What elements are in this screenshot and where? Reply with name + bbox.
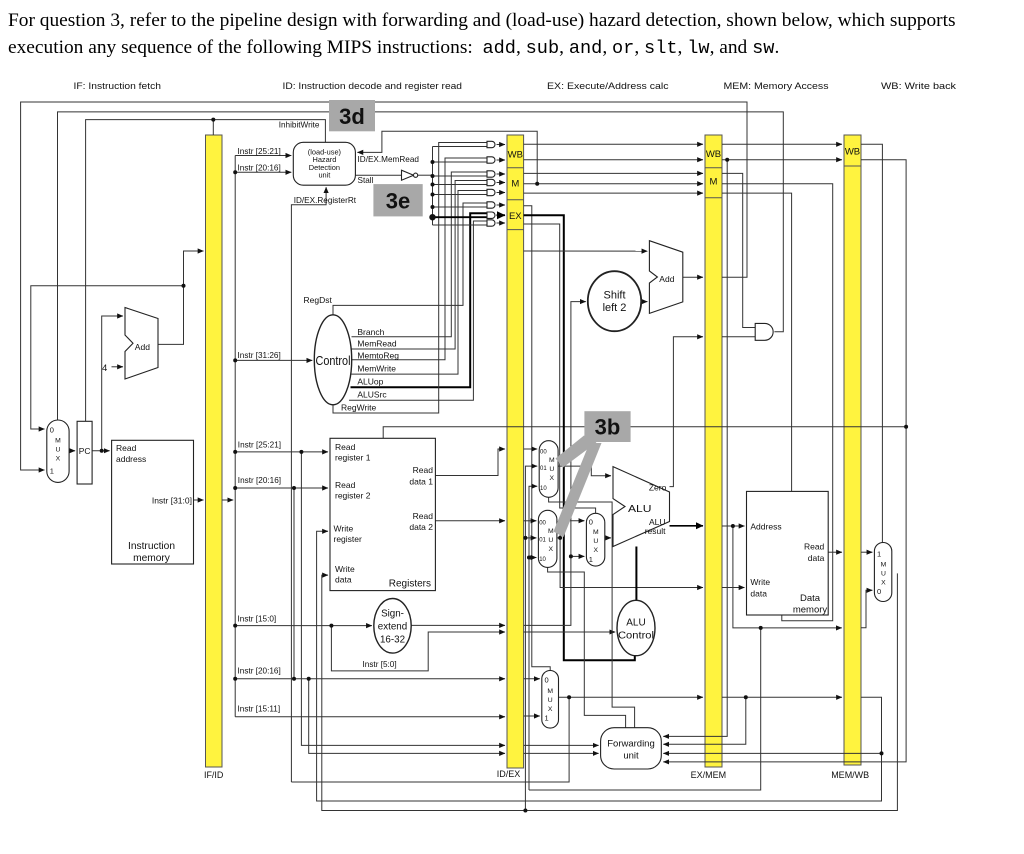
wire Instr[20:16] to ID/EX <box>235 678 505 680</box>
svg-text:result: result <box>645 526 666 536</box>
svg-text:PC: PC <box>79 446 91 456</box>
wire stall stub g1 <box>433 146 488 148</box>
svg-text:Instr [31:26]: Instr [31:26] <box>238 351 281 360</box>
wire forward mux A output to ALU top input <box>558 466 611 476</box>
svg-text:MEM/WB: MEM/WB <box>831 770 869 780</box>
svg-text:unit: unit <box>318 171 330 180</box>
MEM/WB WB section divider <box>844 165 861 167</box>
svg-text:U: U <box>549 466 554 473</box>
callout box 3b <box>584 411 630 442</box>
svg-text:MEM: Memory Access: MEM: Memory Access <box>724 81 829 91</box>
svg-text:MemtoReg: MemtoReg <box>357 351 399 361</box>
wire stall stub g7 thick <box>433 216 488 218</box>
wire WB control ID/EX to EX/MEM line 2 <box>524 159 703 161</box>
pipeline register MEM/WB <box>844 135 861 765</box>
wire Rt down to ID/EX <box>309 679 505 754</box>
wire MEM/WB RegWrite down to forwarding unit <box>663 160 906 762</box>
wire EX/MEM Rd down to forwarding unit <box>663 697 746 744</box>
svg-text:Branch: Branch <box>357 327 384 337</box>
wire ALUop control thick <box>351 213 488 387</box>
wire Instr[25:21] to hazard unit <box>235 155 291 157</box>
wire PC to Add top input <box>102 316 123 451</box>
instruction memory <box>112 440 194 564</box>
wire MemRead control <box>351 181 487 350</box>
wire WB value forward vertical <box>525 466 537 810</box>
wire read data 1 to forward mux A input 00 <box>524 448 538 450</box>
wire Stall from inverter to distribution <box>355 174 401 176</box>
svg-text:10: 10 <box>539 557 546 563</box>
wire B value down to EX/MEM write data <box>560 538 703 588</box>
wire Rd to destination mux input 1 <box>524 715 540 717</box>
wire read data 2 to ID/EX <box>435 520 505 522</box>
svg-text:Write: Write <box>335 564 355 574</box>
wire ALUOp thick to ALU control <box>524 215 635 660</box>
wire PC output to instruction memory read address <box>92 450 110 452</box>
svg-text:register 1: register 1 <box>335 453 371 463</box>
control gate g6 <box>487 202 495 208</box>
svg-text:left 2: left 2 <box>603 302 627 314</box>
pipeline register EX/MEM <box>705 135 722 767</box>
svg-text:ID/EX.MemRead: ID/EX.MemRead <box>358 155 420 164</box>
svg-text:0: 0 <box>589 518 593 527</box>
svg-text:Read: Read <box>413 465 434 475</box>
wire funct field to ALU control <box>524 631 616 633</box>
sign extend oval <box>374 599 411 654</box>
svg-text:Write: Write <box>750 577 770 587</box>
svg-text:MemRead: MemRead <box>357 339 396 349</box>
wire M control Branch ID/EX to EX/MEM <box>524 172 703 174</box>
wire Instr[15:11] to ID/EX <box>235 716 505 718</box>
pipeline register ID/EX <box>507 135 524 768</box>
svg-text:Sign-: Sign- <box>381 608 404 619</box>
wire forward mux B output node <box>557 537 560 539</box>
wire Instr[31:26] to Control <box>235 359 312 361</box>
wire B value to ALU source mux input 0 <box>560 521 584 538</box>
svg-text:EX: EX <box>509 211 522 222</box>
wire RegWrite from MEM/WB to Registers <box>383 427 906 439</box>
wire IF/ID instruction output to distribution node <box>222 499 233 501</box>
callout box 3e <box>373 184 422 216</box>
svg-text:10: 10 <box>540 486 547 492</box>
ID/EX EX section divider <box>507 229 524 231</box>
wire branch-target feedback EX/MEM to PC mux input 1 <box>21 102 747 470</box>
EX/MEM M section divider <box>705 197 722 199</box>
data memory <box>747 491 829 615</box>
svg-text:M: M <box>55 438 61 445</box>
svg-text:Write: Write <box>334 524 354 534</box>
svg-text:Add: Add <box>659 274 674 284</box>
svg-text:Instr [25:21]: Instr [25:21] <box>238 147 281 156</box>
svg-text:InhibitWrite: InhibitWrite <box>279 121 320 130</box>
wire ALU Zero flag to EX/MEM <box>670 337 704 487</box>
wire Zero flag EX/MEM to AND gate <box>722 336 755 338</box>
wire Rd EX/MEM to MEM/WB <box>722 696 842 698</box>
svg-text:X: X <box>594 547 599 554</box>
svg-text:Instr [5:0]: Instr [5:0] <box>363 660 397 669</box>
wire PCSrc from AND gate to PC mux select <box>58 112 784 420</box>
wire ID/EX.RegisterRt up to hazard unit <box>291 187 326 782</box>
hazard detection unit <box>293 142 355 185</box>
wire stall stub g6 <box>433 206 488 208</box>
ALU control oval <box>617 600 655 655</box>
svg-text:M: M <box>881 562 887 569</box>
svg-text:Instr [20:16]: Instr [20:16] <box>238 164 281 173</box>
svg-text:01: 01 <box>539 538 546 544</box>
svg-text:Address: Address <box>750 521 781 531</box>
wire ALU result down to MEM/WB <box>733 526 842 628</box>
wire read data 1 to ID/EX <box>435 449 505 476</box>
svg-text:U: U <box>55 447 60 454</box>
svg-text:1: 1 <box>877 550 881 559</box>
svg-text:M: M <box>710 177 718 188</box>
wire RegDst select down to destination mux <box>524 206 551 671</box>
wire Instr[15:0] to sign extend <box>235 625 372 627</box>
svg-text:ALU: ALU <box>628 503 652 515</box>
wire forward select A from forwarding unit <box>549 497 635 727</box>
control gate g3 <box>487 171 495 177</box>
svg-text:1: 1 <box>545 714 549 723</box>
svg-text:3d: 3d <box>339 104 365 129</box>
svg-text:X: X <box>548 706 553 713</box>
wire Branch control <box>352 172 488 337</box>
wire MEM/WB ALU result to WB mux input 0 <box>861 590 872 627</box>
svg-text:ID/EX: ID/EX <box>497 769 521 779</box>
wire immediate stub into ALU source mux input 1 <box>571 555 585 557</box>
svg-text:WB: WB <box>706 149 721 160</box>
svg-text:data: data <box>808 553 825 563</box>
wire RegDst control from Control oval <box>333 203 487 315</box>
wire Add output to IF/ID <box>158 251 204 344</box>
wire MemtoReg control <box>352 158 488 360</box>
svg-text:16-32: 16-32 <box>380 634 405 645</box>
svg-text:ID: Instruction decode and reg: ID: Instruction decode and register read <box>283 81 463 91</box>
svg-text:Zero: Zero <box>649 482 667 492</box>
wire Rt field down to ID/EX input line <box>293 488 295 679</box>
wire WB control EX/MEM to MEM/WB line 1 <box>722 143 842 145</box>
wire WB value stub to mux B input 01 <box>525 537 536 539</box>
wire ALU result forward down to EX muxes <box>529 628 761 790</box>
svg-text:register 2: register 2 <box>335 491 371 501</box>
ID/EX M section divider <box>507 199 524 201</box>
wire immediate to shift left 2 and ALU source mux <box>524 302 586 626</box>
wire InhibitWrite from hazard unit to PC and IF/ID <box>86 120 326 422</box>
svg-text:M: M <box>548 528 554 535</box>
svg-text:memory: memory <box>793 605 828 616</box>
svg-text:WB: WB <box>845 147 860 158</box>
wire instruction memory output to IF/ID <box>194 499 204 501</box>
svg-text:X: X <box>549 546 554 553</box>
svg-text:RegWrite: RegWrite <box>341 403 377 413</box>
svg-text:Read: Read <box>335 442 356 452</box>
wire MEM/WB Rd to forwarding unit <box>663 697 881 753</box>
mux ALU source <box>586 513 604 566</box>
svg-text:extend: extend <box>378 621 407 632</box>
wire shift left 2 output to branch Add <box>641 301 647 303</box>
wire Stall distribution vertical <box>432 147 434 226</box>
wire read data MEM/WB to WB mux input 1 <box>861 551 872 553</box>
wire RegWrite control <box>333 143 487 414</box>
adder branch target <box>649 241 682 314</box>
svg-text:ALUSrc: ALUSrc <box>357 389 387 399</box>
svg-text:Instr [20:16]: Instr [20:16] <box>238 476 281 485</box>
wire destination register number to EX/MEM <box>559 696 704 698</box>
wire stall stub g3 <box>433 175 488 177</box>
svg-text:MemWrite: MemWrite <box>357 363 396 373</box>
wire ALUSrc select down to ALU source mux <box>524 224 596 513</box>
wire read data to MEM/WB <box>828 551 842 553</box>
svg-text:0: 0 <box>877 587 881 596</box>
svg-text:Control: Control <box>618 631 654 642</box>
pipeline register IF/ID <box>206 135 223 767</box>
control gate g1 <box>487 141 495 147</box>
svg-text:data: data <box>335 574 352 584</box>
svg-text:Read: Read <box>804 542 825 552</box>
wire ALU result to EX/MEM <box>670 525 704 527</box>
svg-text:X: X <box>881 580 886 587</box>
wire MemWrite to data memory <box>722 184 833 621</box>
wire stall stub g8 <box>433 224 488 226</box>
wire M control MemRead ID/EX to EX/MEM <box>524 192 703 194</box>
wire EX/MEM value forward vertical <box>529 486 537 790</box>
svg-text:data: data <box>750 589 767 599</box>
svg-text:U: U <box>593 538 598 545</box>
svg-text:4: 4 <box>102 363 107 374</box>
wire ALU control to ALU thick <box>635 547 637 602</box>
wire Rt to destination mux input 0 <box>524 678 540 680</box>
svg-text:Read: Read <box>335 480 356 490</box>
svg-text:Instr [25:21]: Instr [25:21] <box>238 440 281 449</box>
svg-text:Instr [15:0]: Instr [15:0] <box>238 614 277 623</box>
svg-text:01: 01 <box>540 466 547 472</box>
callout box 3d <box>329 100 375 131</box>
wire MemtoReg select down to WB mux <box>861 144 882 542</box>
svg-text:0: 0 <box>545 676 549 685</box>
svg-text:3b: 3b <box>595 415 621 440</box>
svg-text:U: U <box>548 697 553 704</box>
callout arrow 3b to mux A <box>556 436 597 468</box>
wire WB control EX/MEM to MEM/WB line 2 <box>722 159 842 161</box>
callout arrow 3b to mux B <box>554 443 602 537</box>
svg-text:M: M <box>549 457 555 464</box>
wire ALU source mux output to ALU <box>605 537 611 539</box>
ID/EX WB section divider <box>507 167 524 169</box>
register PC <box>77 421 92 484</box>
wire write data EX/MEM to data memory <box>722 587 745 589</box>
wire gate outputs into ID/EX <box>497 144 506 146</box>
svg-text:3e: 3e <box>386 189 410 214</box>
control gate g7 <box>487 212 495 218</box>
control gate g4 <box>487 179 495 185</box>
wire sign extend output to ID/EX <box>411 624 505 626</box>
wire MemRead to data memory <box>722 193 792 491</box>
svg-text:RegDst: RegDst <box>304 295 333 305</box>
wire stall stub g4 <box>433 184 488 186</box>
wire forward select B from forwarding unit <box>548 567 626 727</box>
control gate g8 <box>487 220 495 226</box>
svg-text:M: M <box>511 179 519 190</box>
adder PC+4 <box>125 308 158 380</box>
forwarding unit <box>601 728 662 769</box>
AND gate branch <box>755 323 773 340</box>
wire stall stub g2 <box>433 161 488 163</box>
svg-text:U: U <box>548 537 553 544</box>
wire constant 4 into Add <box>112 366 124 368</box>
svg-text:Instr [20:16]: Instr [20:16] <box>238 666 281 675</box>
wire destination number down to hazard return line <box>291 697 569 782</box>
wire PC+4 through ID/EX to branch Add <box>524 250 648 252</box>
svg-text:00: 00 <box>539 521 546 527</box>
wire instruction distribution vertical <box>234 156 236 717</box>
svg-text:data 2: data 2 <box>409 522 433 532</box>
control gate g2 <box>487 157 495 163</box>
svg-text:Forwarding: Forwarding <box>607 738 655 749</box>
svg-text:Shift: Shift <box>603 290 625 302</box>
wire EX/MEM RegWrite down to forwarding unit <box>663 160 727 737</box>
svg-text:Instr [15:11]: Instr [15:11] <box>238 704 281 713</box>
wire stall stub g5 <box>433 194 488 196</box>
svg-text:1: 1 <box>589 555 593 564</box>
control unit oval <box>314 315 351 405</box>
svg-text:IF/ID: IF/ID <box>204 770 224 780</box>
svg-text:address: address <box>116 454 146 464</box>
wire Instr[20:16] to hazard unit <box>235 171 291 173</box>
control gate g5 <box>487 189 495 195</box>
svg-text:X: X <box>550 475 555 482</box>
svg-text:M: M <box>547 688 553 695</box>
mux PC source <box>47 420 69 482</box>
wire Instr[20:16] to read register 2 <box>235 487 328 489</box>
wire ID/EX.MemRead loopback to hazard unit <box>357 131 537 183</box>
svg-text:Control: Control <box>316 354 351 368</box>
EX/MEM WB section divider <box>705 167 722 169</box>
mux destination register <box>542 671 559 729</box>
wire write register number from MEM/WB <box>317 531 882 801</box>
svg-text:Instr [31:0]: Instr [31:0] <box>152 496 192 506</box>
inverter Stall <box>402 170 414 180</box>
wire read data 2 to forward mux B input 00 <box>524 520 537 522</box>
svg-text:M: M <box>593 529 599 536</box>
wire ALU result EX/MEM to data memory address <box>722 525 745 527</box>
wire M control MemWrite ID/EX to EX/MEM <box>524 183 703 185</box>
wire write data from WB mux <box>322 573 898 810</box>
wire PC mux output to PC <box>69 450 75 452</box>
svg-text:Registers: Registers <box>389 579 431 590</box>
svg-text:Stall: Stall <box>358 176 374 185</box>
svg-text:IF: Instruction fetch: IF: Instruction fetch <box>74 81 162 91</box>
svg-text:Read: Read <box>413 511 434 521</box>
svg-text:ALU: ALU <box>626 618 645 629</box>
svg-text:U: U <box>881 571 886 578</box>
svg-text:1: 1 <box>50 467 54 476</box>
svg-text:Read: Read <box>116 443 137 453</box>
svg-text:unit: unit <box>623 750 639 761</box>
wire Instr[25:21] to read register 1 <box>235 451 328 453</box>
wire Rs down to ID/EX <box>301 452 505 746</box>
svg-text:EX/MEM: EX/MEM <box>691 770 727 780</box>
svg-text:data 1: data 1 <box>409 477 433 487</box>
svg-text:EX: Execute/Address calc: EX: Execute/Address calc <box>547 81 669 91</box>
mux forward B <box>538 510 557 567</box>
ALU <box>613 467 670 547</box>
wire WB control ID/EX to EX/MEM line 1 <box>524 143 703 145</box>
wire Rs from ID/EX to forwarding unit <box>524 744 599 746</box>
shift left 2 oval <box>588 271 641 331</box>
wire MemWrite control <box>351 191 487 375</box>
svg-text:register: register <box>334 534 363 544</box>
registers file <box>330 438 435 590</box>
svg-text:WB: Write back: WB: Write back <box>881 81 956 91</box>
svg-text:0: 0 <box>50 426 54 435</box>
wire Branch control to AND gate <box>722 173 755 327</box>
wire branch Add result to EX/MEM <box>683 276 703 278</box>
svg-text:Data: Data <box>800 593 821 604</box>
wire IF/ID write disable <box>212 120 214 135</box>
svg-text:Instruction: Instruction <box>128 541 175 552</box>
svg-text:Add: Add <box>135 342 150 352</box>
svg-text:00: 00 <box>540 450 547 456</box>
svg-text:X: X <box>56 456 61 463</box>
wire ALUSrc control <box>349 221 487 400</box>
wire EX/MEM value stub to mux B input 10 <box>529 557 536 559</box>
svg-text:WB: WB <box>508 150 523 161</box>
wire Rt from ID/EX to forwarding unit <box>524 752 599 754</box>
wire Instr[5:0] to ID/EX <box>331 626 505 671</box>
wire PC+4 around to PC mux input 0 <box>31 286 184 429</box>
svg-text:ALUop: ALUop <box>357 376 383 386</box>
svg-text:memory: memory <box>133 553 171 564</box>
mux write back <box>874 543 891 602</box>
mux forward A <box>539 441 558 498</box>
svg-text:ID/EX.RegisterRt: ID/EX.RegisterRt <box>294 196 357 205</box>
